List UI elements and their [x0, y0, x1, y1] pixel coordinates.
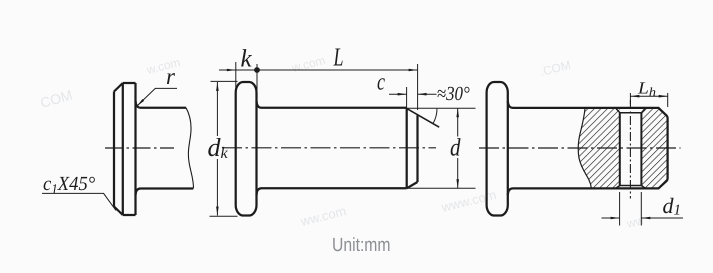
- svg-text:d: d: [450, 135, 461, 162]
- svg-text:k: k: [241, 46, 253, 73]
- svg-text:≈30°: ≈30°: [437, 83, 470, 105]
- svg-text:c: c: [377, 70, 385, 96]
- svg-text:r: r: [166, 64, 176, 89]
- svg-text:c1X45°: c1X45°: [43, 173, 95, 198]
- svg-text:Unit:mm: Unit:mm: [332, 235, 391, 256]
- svg-text:L: L: [333, 43, 344, 72]
